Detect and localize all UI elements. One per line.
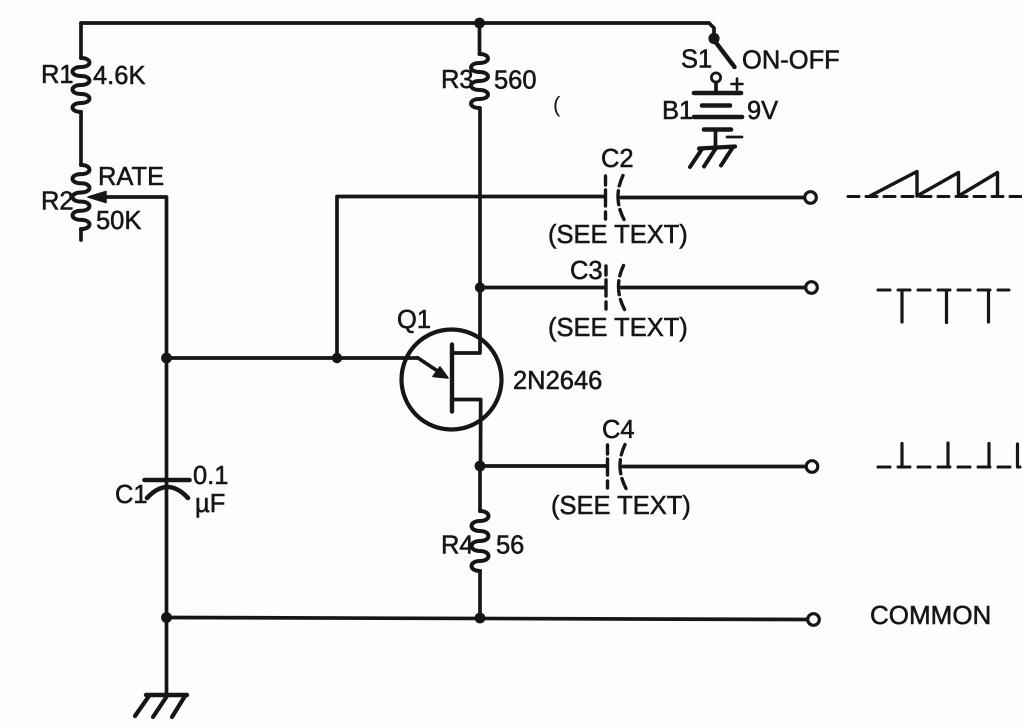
terminal spike output — [806, 461, 818, 473]
ground battery bar — [699, 147, 735, 149]
resistor R1 — [73, 58, 90, 112]
waveform sawtooth teeth — [870, 172, 998, 197]
svg-text:R4: R4 — [441, 532, 474, 560]
svg-text:B1: B1 — [662, 97, 693, 125]
node emitter branch — [332, 353, 342, 363]
transistor Q1 emitter arrowhead — [433, 367, 448, 378]
waveform sawtooth baseline dashed — [848, 195, 1021, 198]
waveform spike baseline dashed — [878, 466, 1020, 469]
svg-text:R2: R2 — [41, 188, 74, 216]
ground bottom hatch 1 — [135, 696, 149, 716]
svg-text:RATE: RATE — [98, 163, 164, 191]
capacitor C2 left plate dashed — [604, 176, 607, 219]
capacitor C3 curved plate dashed — [618, 266, 624, 310]
battery B1 plate 2 short — [702, 103, 730, 108]
transistor Q1 circle — [402, 330, 502, 430]
svg-text:0.1: 0.1 — [193, 462, 228, 490]
svg-text:µF: µF — [195, 490, 225, 518]
svg-text:C1: C1 — [115, 481, 148, 509]
wire C4 line left — [480, 464, 606, 468]
wire R2 wiper to node — [106, 197, 167, 358]
svg-text:50K: 50K — [96, 207, 141, 235]
wiper arrowhead R2 — [88, 192, 106, 203]
svg-text:C3: C3 — [570, 257, 603, 285]
node bottom left — [161, 612, 172, 623]
battery minus sign — [727, 136, 742, 139]
wire C2 branch L — [337, 197, 604, 359]
svg-text:R1: R1 — [41, 61, 74, 89]
wire top rail — [81, 23, 714, 34]
svg-text:COMMON: COMMON — [870, 600, 991, 630]
battery B1 plate 1 long — [694, 91, 741, 96]
node C4 tap — [475, 461, 486, 472]
svg-text:Q1: Q1 — [397, 306, 431, 334]
wire C3 line left — [480, 286, 604, 290]
wire left vertical top (rail to R1) — [79, 23, 83, 58]
battery B1 plate 4 short — [704, 127, 731, 132]
node wiper junction — [161, 353, 172, 364]
potentiometer R2 — [73, 165, 90, 229]
waveform pulse baseline dashed — [878, 289, 1009, 292]
wire C4 to terminal — [623, 465, 806, 469]
ground bottom left bar — [146, 693, 187, 697]
wire C3 to terminal — [622, 286, 806, 290]
svg-text:(SEE TEXT): (SEE TEXT) — [548, 221, 688, 249]
wire R1 to R2 — [79, 112, 83, 165]
svg-text:C2: C2 — [601, 145, 634, 173]
svg-text:C4: C4 — [602, 416, 635, 444]
wire R3 to Q1 base2 — [452, 108, 480, 353]
wire switch to battery — [714, 83, 718, 92]
transistor Q1 base bar — [450, 345, 454, 412]
svg-text:(SEE TEXT): (SEE TEXT) — [551, 492, 691, 520]
svg-text:4.6K: 4.6K — [93, 62, 145, 90]
capacitor C2 curved plate dashed — [618, 176, 624, 220]
wire R4 to bottom rail — [478, 571, 482, 618]
svg-text:S1: S1 — [681, 46, 712, 74]
svg-text:R3: R3 — [441, 66, 474, 94]
ground battery hatch 1 — [690, 149, 702, 167]
battery B1 plus sign — [732, 79, 743, 90]
svg-text:9V: 9V — [747, 97, 778, 125]
wire bottom rail — [167, 618, 808, 620]
svg-text:(SEE TEXT): (SEE TEXT) — [548, 314, 688, 342]
waveform spikes up — [902, 443, 1018, 467]
wire C2 to terminal — [621, 196, 804, 200]
svg-text:56: 56 — [496, 532, 524, 560]
capacitor C1 top plate — [145, 478, 190, 483]
capacitor C4 curved plate dashed — [620, 445, 626, 489]
capacitor C3 left plate dashed — [604, 266, 607, 309]
svg-text:2N2646: 2N2646 — [513, 367, 602, 395]
capacitor C4 left plate dashed — [606, 445, 609, 488]
transistor Q1 emitter diagonal — [418, 358, 442, 374]
wire Q1 base1 down — [452, 400, 481, 467]
node top rail to R3 — [474, 18, 485, 29]
ground battery hatch 2 — [704, 148, 716, 167]
ground bottom hatch 3 — [172, 696, 185, 717]
svg-text:560: 560 — [494, 67, 537, 95]
terminal pulse output — [806, 282, 818, 294]
wire C4 tap to R4 — [478, 466, 482, 511]
switch S1 lower terminal — [711, 73, 720, 82]
wire emitter horizontal — [167, 356, 419, 360]
wire R2 bottom stub — [79, 229, 83, 240]
ground bottom hatch 2 — [153, 696, 167, 717]
battery B1 plate 3 long — [694, 115, 742, 120]
node C3 tap — [475, 282, 485, 292]
wire rail to R3 — [478, 23, 482, 54]
resistor R3 — [471, 54, 488, 108]
node bottom R4 — [475, 613, 486, 624]
switch S1 node dot — [708, 33, 719, 44]
waveform pulse spikes down — [902, 290, 989, 323]
terminal sawtooth output — [805, 192, 817, 204]
svg-text:(: ( — [553, 92, 561, 117]
wire battery to ground — [714, 131, 718, 146]
capacitor C1 curved plate — [147, 487, 188, 498]
ground battery hatch 3 — [721, 147, 733, 166]
resistor R4 — [472, 511, 489, 571]
terminal COMMON — [808, 614, 820, 626]
svg-text:ON-OFF: ON-OFF — [742, 47, 840, 75]
wire left vertical to C1 and ground — [165, 358, 169, 692]
switch S1 lever — [714, 40, 735, 67]
